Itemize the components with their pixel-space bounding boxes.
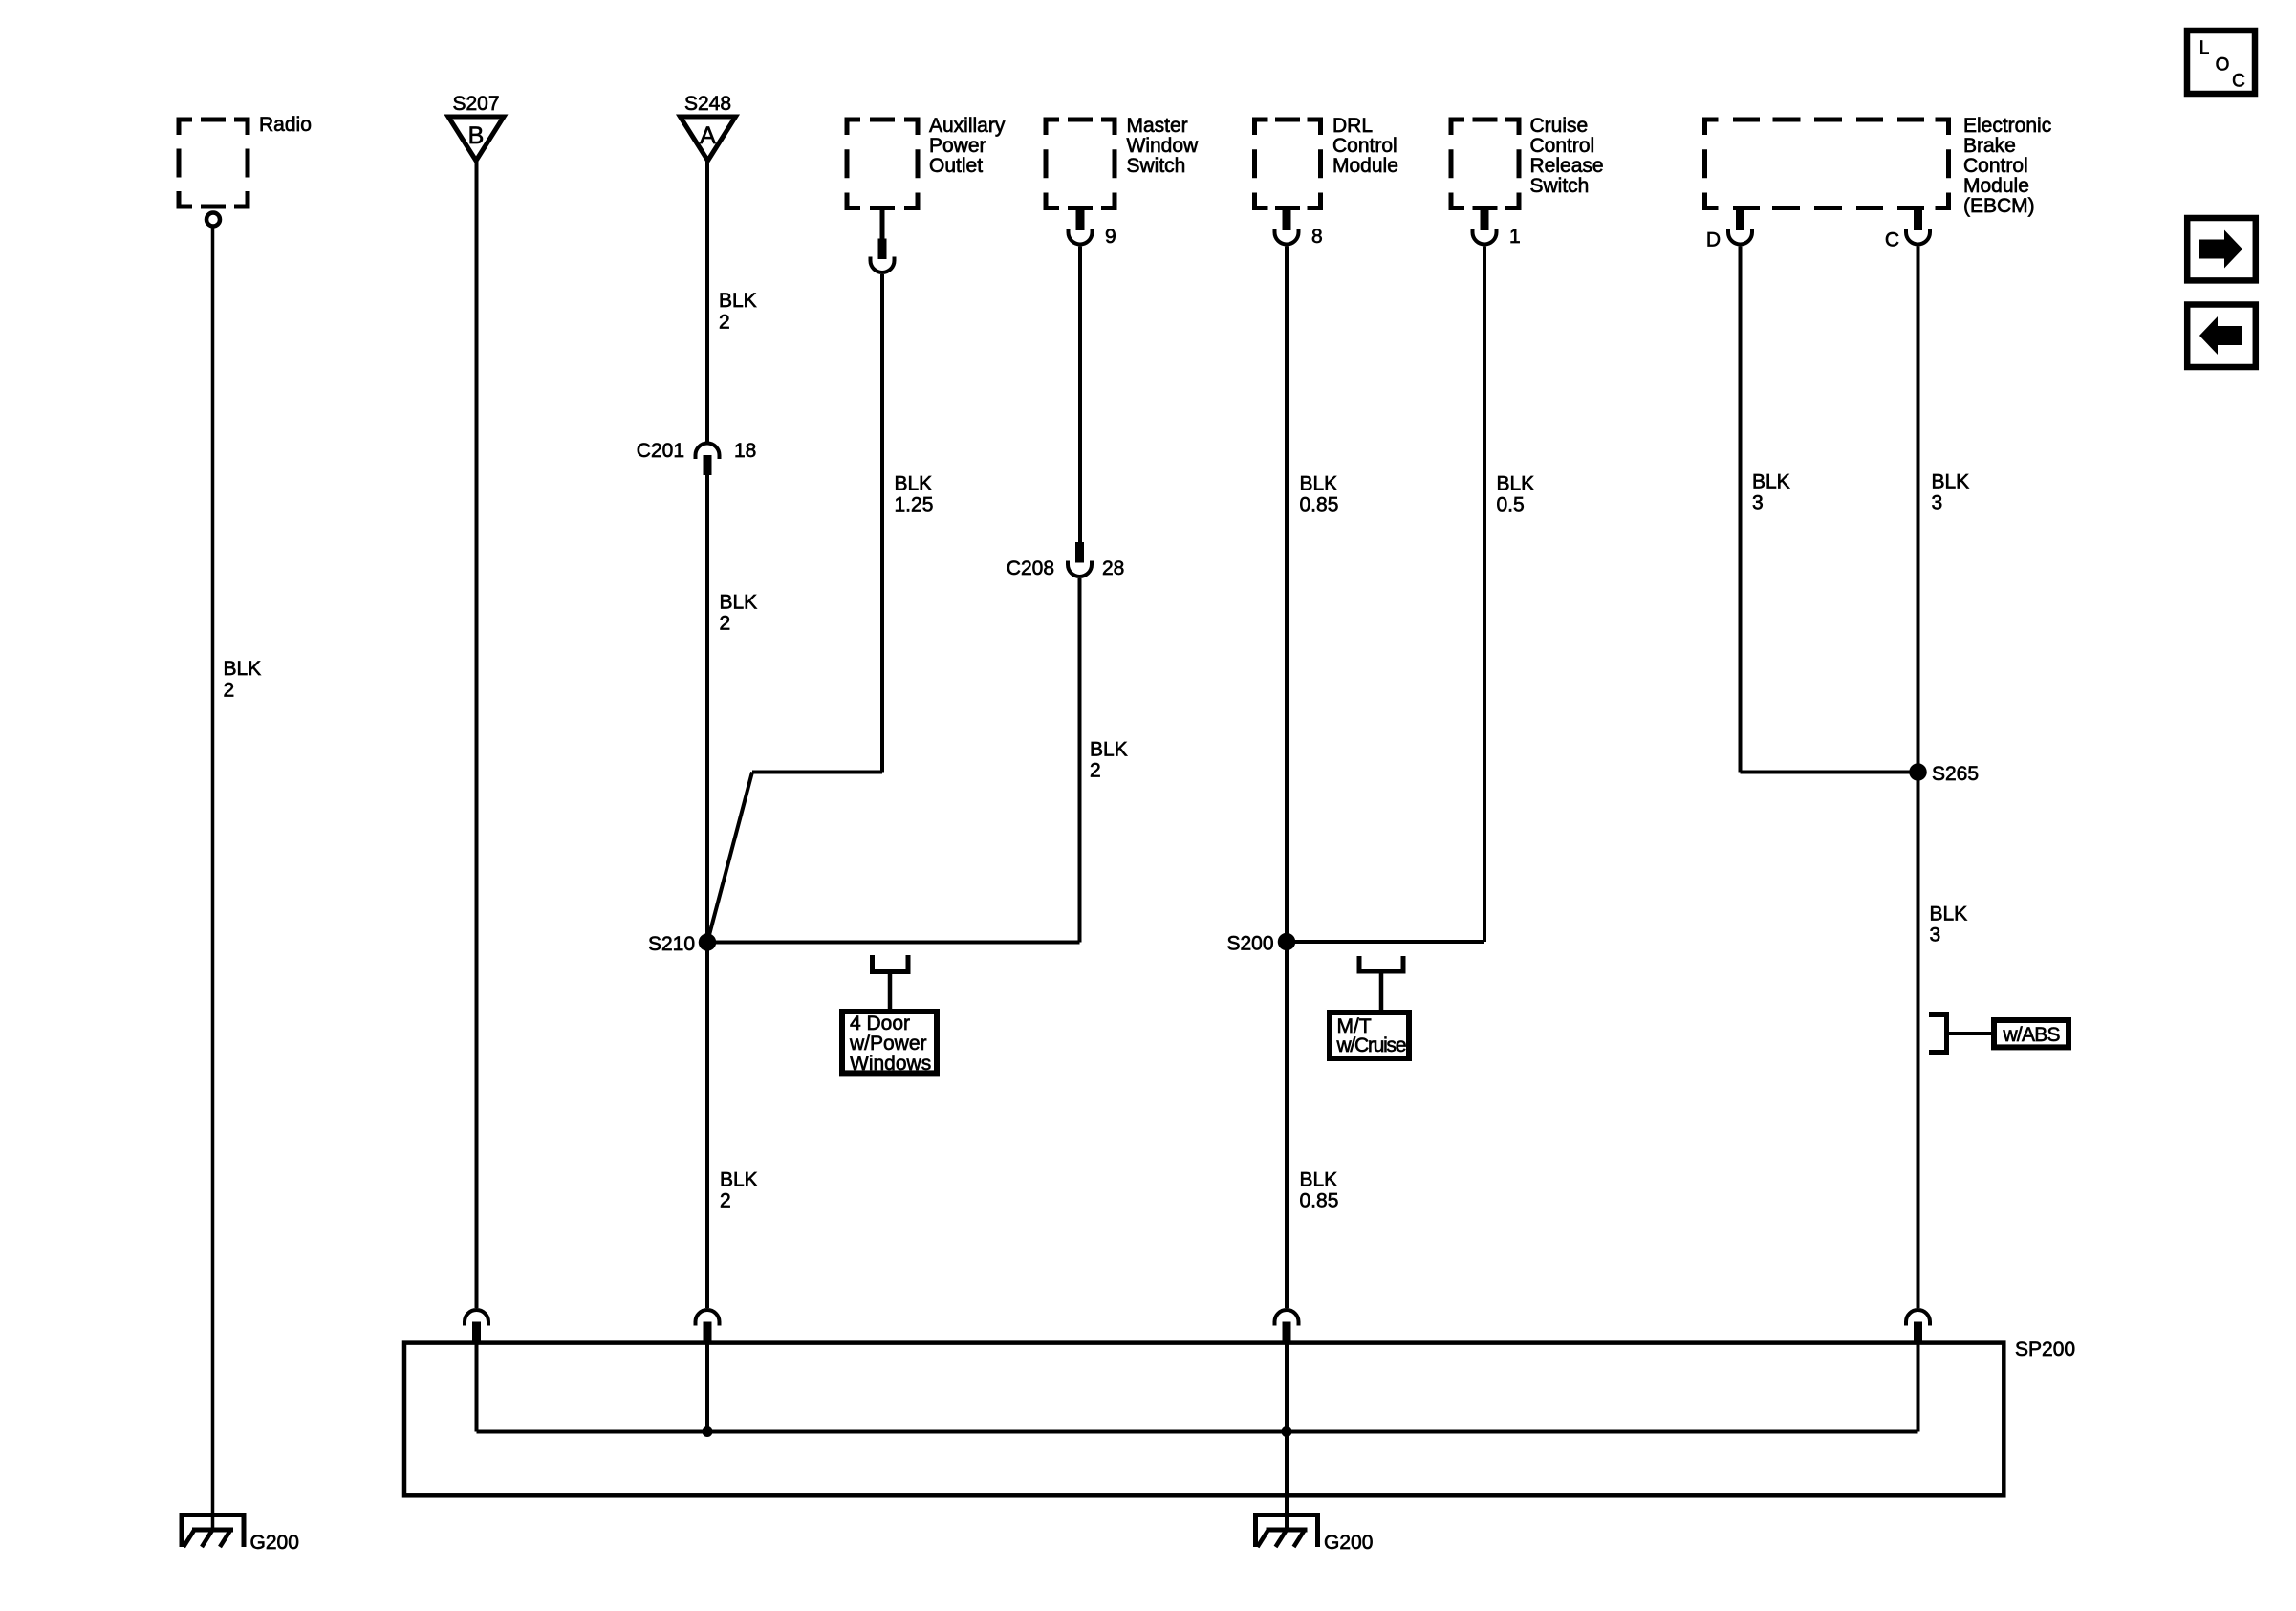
svg-text:BLK: BLK <box>1300 1169 1338 1191</box>
svg-text:Module: Module <box>1332 155 1398 177</box>
svg-text:S200: S200 <box>1226 933 1273 955</box>
svg-text:C208: C208 <box>1007 557 1054 579</box>
svg-text:Release: Release <box>1530 155 1604 177</box>
svg-text:18: 18 <box>734 440 756 462</box>
svg-text:1.25: 1.25 <box>895 494 934 516</box>
svg-text:0.5: 0.5 <box>1497 494 1525 516</box>
svg-text:B: B <box>468 122 485 149</box>
svg-text:Switch: Switch <box>1127 155 1186 177</box>
svg-text:Radio: Radio <box>259 114 312 136</box>
svg-text:w/ABS: w/ABS <box>2003 1024 2061 1046</box>
svg-text:Windows: Windows <box>850 1053 931 1075</box>
svg-text:Module: Module <box>1963 175 2029 197</box>
svg-text:S265: S265 <box>1932 763 1979 785</box>
svg-text:BLK: BLK <box>719 290 757 312</box>
svg-text:Auxillary: Auxillary <box>929 115 1006 137</box>
svg-text:w/Power: w/Power <box>849 1033 927 1055</box>
svg-text:Master: Master <box>1127 115 1188 137</box>
svg-text:9: 9 <box>1105 226 1116 248</box>
svg-text:S248: S248 <box>684 93 731 115</box>
svg-text:Switch: Switch <box>1530 175 1590 197</box>
svg-text:2: 2 <box>720 1190 731 1212</box>
svg-text:28: 28 <box>1102 557 1124 579</box>
svg-text:Electronic: Electronic <box>1963 115 2051 137</box>
svg-text:C: C <box>2232 72 2245 92</box>
svg-text:w/Cruise: w/Cruise <box>1336 1034 1407 1056</box>
svg-text:D: D <box>1706 229 1721 251</box>
svg-text:Control: Control <box>1332 135 1397 157</box>
svg-text:2: 2 <box>1090 760 1101 782</box>
svg-text:Brake: Brake <box>1963 135 2016 157</box>
svg-text:BLK: BLK <box>1300 473 1338 495</box>
svg-text:2: 2 <box>720 613 731 635</box>
svg-text:L: L <box>2199 38 2210 58</box>
svg-text:BLK: BLK <box>1930 903 1968 925</box>
svg-text:BLK: BLK <box>1752 471 1790 493</box>
svg-text:Window: Window <box>1127 135 1200 157</box>
svg-text:3: 3 <box>1752 492 1764 514</box>
svg-text:BLK: BLK <box>1090 739 1128 761</box>
svg-text:3: 3 <box>1932 492 1943 514</box>
svg-text:BLK: BLK <box>1497 473 1535 495</box>
svg-text:S210: S210 <box>648 933 695 955</box>
svg-text:BLK: BLK <box>1932 471 1970 493</box>
svg-text:3: 3 <box>1930 925 1941 947</box>
svg-text:Outlet: Outlet <box>929 155 983 177</box>
svg-text:BLK: BLK <box>720 1169 758 1191</box>
svg-text:(EBCM): (EBCM) <box>1963 195 2035 217</box>
svg-text:BLK: BLK <box>720 592 758 614</box>
svg-text:1: 1 <box>1509 226 1521 248</box>
svg-text:BLK: BLK <box>895 473 933 495</box>
svg-text:C201: C201 <box>637 440 684 462</box>
svg-text:0.85: 0.85 <box>1300 494 1339 516</box>
svg-text:4 Door: 4 Door <box>850 1012 910 1034</box>
svg-text:G200: G200 <box>250 1532 299 1554</box>
svg-text:SP200: SP200 <box>2015 1339 2075 1361</box>
svg-text:S207: S207 <box>452 93 499 115</box>
svg-text:G200: G200 <box>1324 1532 1373 1554</box>
svg-text:Control: Control <box>1530 135 1595 157</box>
svg-text:O: O <box>2216 55 2230 76</box>
svg-text:2: 2 <box>719 312 730 334</box>
svg-text:DRL: DRL <box>1332 115 1373 137</box>
svg-text:8: 8 <box>1311 226 1323 248</box>
svg-text:BLK: BLK <box>224 658 262 680</box>
svg-text:2: 2 <box>224 680 235 702</box>
svg-text:C: C <box>1885 229 1899 251</box>
svg-text:A: A <box>700 122 716 149</box>
svg-text:0.85: 0.85 <box>1300 1190 1339 1212</box>
svg-text:Power: Power <box>929 135 986 157</box>
svg-text:Control: Control <box>1963 155 2028 177</box>
svg-text:Cruise: Cruise <box>1530 115 1589 137</box>
